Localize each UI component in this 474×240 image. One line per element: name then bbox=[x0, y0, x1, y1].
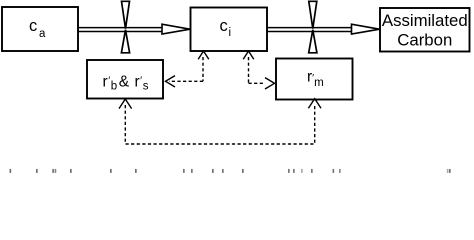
dashed connector r'b&r's to c_i bbox=[166, 51, 209, 87]
chevron arrowhead left into r'b&r's bbox=[166, 76, 176, 87]
chevron arrowhead up into r'b&r's bbox=[119, 99, 132, 109]
pipe (double line) c_a to c_i bbox=[78, 28, 166, 32]
box r'b & r's bbox=[87, 60, 163, 99]
chevron arrowhead up into c_i bbox=[243, 51, 254, 59]
caption (cut off at bottom edge): glyph tops bbox=[10, 169, 451, 173]
dashed connector r'm to c_i bbox=[243, 51, 274, 89]
open arrowhead into c_i bbox=[162, 24, 190, 34]
pipe (double line) c_i to Assimilated Carbon bbox=[267, 28, 354, 32]
svg-text:Carbon: Carbon bbox=[397, 30, 452, 49]
box c_a bbox=[2, 7, 78, 51]
box Assimilated Carbon bbox=[380, 8, 470, 52]
open arrowhead into Assimilated Carbon bbox=[352, 24, 380, 34]
chevron arrowhead up into c_i bbox=[198, 51, 209, 59]
box r'm bbox=[276, 59, 353, 100]
chevron arrowhead right into r'm bbox=[265, 78, 275, 89]
valve (stomatal) symbol 1 bbox=[121, 1, 129, 53]
chevron arrowhead up into r'm bbox=[308, 99, 321, 109]
valve (mesophyll) symbol 2 bbox=[309, 1, 317, 53]
svg-text:Assimilated: Assimilated bbox=[382, 11, 468, 30]
dashed U connector between r'b&r's and r'm bbox=[119, 99, 321, 144]
box c_i bbox=[191, 8, 268, 52]
